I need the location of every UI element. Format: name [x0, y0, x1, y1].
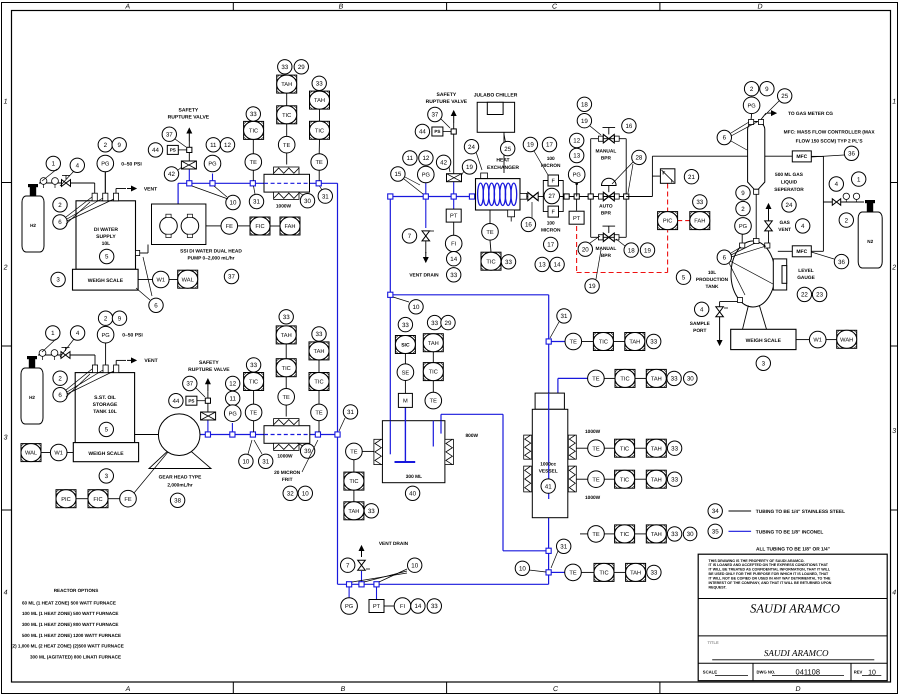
- svg-text:TE: TE: [430, 399, 437, 405]
- chain row y=533.9: TE: [580, 533, 588, 535]
- bubble 19 red loop pointer: [585, 279, 599, 293]
- svg-text:M: M: [403, 399, 408, 405]
- chain F2 mid: TE: [285, 405, 287, 416]
- wire blue DI supply main y=183: [178, 182, 264, 184]
- chain F1 right: TAH: [319, 109, 321, 121]
- svg-text:WAL: WAL: [182, 277, 194, 283]
- svg-text:1: 1: [892, 99, 896, 106]
- svg-text:6: 6: [58, 392, 62, 399]
- svg-text:TE: TE: [592, 477, 599, 483]
- svg-text:10: 10: [413, 304, 420, 311]
- bubble 19 BPR top: [577, 114, 591, 128]
- svg-text:20 MICRON: 20 MICRON: [274, 470, 301, 476]
- svg-text:VENT: VENT: [144, 358, 157, 364]
- rupture disc 1: [181, 161, 196, 169]
- svg-text:TE: TE: [569, 571, 576, 577]
- svg-text:TAH: TAH: [629, 340, 640, 346]
- svg-text:6: 6: [154, 303, 158, 310]
- regulator gauges 2: [39, 350, 46, 357]
- instrument FI bottom: [384, 605, 394, 607]
- chain F2 mid: TIC: [285, 377, 287, 388]
- svg-text:(2) 1,000 ML (2 HEAT ZONE) (2): (2) 1,000 ML (2 HEAT ZONE) (2)500 WATT F…: [11, 644, 124, 649]
- cylinder valve: [30, 187, 36, 196]
- HX bottom stub: [508, 210, 515, 217]
- svg-text:AUTO: AUTO: [599, 204, 613, 210]
- svg-text:1: 1: [4, 99, 8, 106]
- svg-text:FRIT: FRIT: [282, 477, 293, 483]
- svg-text:BPR: BPR: [601, 211, 612, 217]
- svg-text:MFC: MFC: [796, 249, 807, 255]
- wire BPR outlet riser: [626, 196, 652, 198]
- chain row y=341.5: TAH: [613, 341, 624, 343]
- furnace F2 top coil: [274, 419, 299, 426]
- svg-text:10: 10: [230, 200, 237, 207]
- svg-text:041108: 041108: [796, 667, 820, 676]
- weigh scale DI: [73, 269, 139, 290]
- svg-text:33: 33: [505, 259, 512, 266]
- chain row y=378.4: TE: [588, 370, 605, 387]
- gear pump: [158, 414, 200, 456]
- svg-text:HEAT: HEAT: [496, 158, 509, 164]
- bubble 7 bottom: [341, 558, 355, 572]
- svg-text:TIC: TIC: [249, 129, 258, 135]
- wire MFC1 to riser: [811, 155, 823, 157]
- wire blue stem rupture x=453.7 mid: [453, 181, 455, 196]
- chain F2 right: bubble 33: [312, 327, 326, 341]
- svg-text:N2: N2: [867, 239, 873, 244]
- bubble 12 13 before BPR: [570, 133, 584, 147]
- wire blue stem PG x=426 mid: [425, 183, 427, 197]
- svg-text:2: 2: [891, 265, 896, 272]
- svg-text:TE: TE: [315, 411, 322, 417]
- svg-text:5: 5: [682, 274, 686, 281]
- 300mL heater coils: [374, 439, 383, 464]
- bubble 2: [53, 198, 67, 212]
- 1000cc vessel cap: [535, 393, 564, 409]
- svg-text:FE: FE: [124, 497, 131, 503]
- svg-text:31: 31: [347, 409, 354, 416]
- legend line inconel: [729, 530, 752, 532]
- svg-text:10L: 10L: [708, 270, 716, 276]
- svg-text:33: 33: [250, 362, 257, 369]
- stirrer impeller: [395, 461, 416, 463]
- svg-text:4: 4: [801, 223, 805, 230]
- svg-text:500 ML GAS: 500 ML GAS: [775, 172, 804, 178]
- bubble 12 mid: [419, 151, 433, 165]
- rupture disc 2: [201, 412, 216, 420]
- bubble 12: [220, 138, 234, 152]
- svg-text:4: 4: [76, 163, 80, 170]
- svg-text:35: 35: [712, 529, 719, 536]
- svg-text:TIC: TIC: [620, 446, 629, 452]
- svg-text:18: 18: [628, 247, 635, 254]
- wire tank to gear pump: [135, 434, 159, 436]
- oil tank top nozzles: [92, 365, 97, 373]
- wire blue stem PG x=349.1 bottom: [348, 584, 350, 598]
- svg-text:TAH: TAH: [651, 532, 662, 538]
- manual BPR bottom valve: [603, 233, 614, 242]
- svg-text:PG: PG: [229, 411, 237, 417]
- bubble 31 pointer row1: [557, 309, 571, 323]
- bubble 31 pointer: [249, 194, 263, 208]
- bubble 31 pointer vessel bottom: [557, 539, 571, 553]
- bubble 16 BPR: [622, 119, 636, 133]
- bubble 36 MFC1: [844, 146, 858, 160]
- filter F bottom: [548, 206, 559, 217]
- svg-text:0–50 PSI: 0–50 PSI: [121, 161, 142, 167]
- svg-text:TAH: TAH: [630, 571, 641, 577]
- svg-text:MANUAL: MANUAL: [596, 148, 617, 154]
- svg-text:TE: TE: [283, 395, 290, 401]
- bubble 42 mid: [436, 155, 450, 169]
- instrument TAH 300mL: [423, 334, 443, 352]
- chain F2 left: bubble 33: [246, 358, 260, 372]
- N2 cylinder right: [858, 212, 882, 268]
- bubble 44 mid: [415, 124, 429, 138]
- svg-text:12: 12: [422, 155, 429, 162]
- svg-text:REACTOR OPTIONS: REACTOR OPTIONS: [54, 588, 99, 593]
- pump head right: [181, 217, 199, 235]
- svg-text:9: 9: [765, 86, 769, 93]
- bubble 5 in tank: [100, 249, 114, 263]
- svg-text:SAUDI ARAMCO: SAUDI ARAMCO: [750, 602, 840, 616]
- bubble 6 oil fan: [53, 388, 67, 402]
- weigh scale right: [731, 329, 796, 349]
- svg-text:IT IS LOANED AND ACCEPTED ON T: IT IS LOANED AND ACCEPTED ON THE EXPRESS…: [709, 563, 829, 567]
- svg-text:FIC: FIC: [93, 497, 102, 503]
- bubble 24 HX top: [464, 140, 478, 154]
- svg-text:WAH: WAH: [840, 337, 853, 343]
- instrument PT mid: [446, 209, 461, 222]
- bubble 20 BPR: [578, 242, 592, 256]
- furnace F1 bottom coil: [274, 192, 299, 199]
- instrument MFC top: [792, 151, 811, 162]
- svg-text:7: 7: [408, 233, 412, 240]
- svg-text:300 ML (AGITATED) 800 LINATI F: 300 ML (AGITATED) 800 LINATI FURNACE: [30, 654, 121, 659]
- bubble 1: [46, 156, 60, 170]
- bubble 2 9 separator: [744, 82, 758, 96]
- svg-text:JULABO CHILLER: JULABO CHILLER: [474, 93, 518, 99]
- bubble 25 chiller: [501, 141, 515, 155]
- svg-text:TAH: TAH: [348, 509, 359, 515]
- svg-text:19: 19: [589, 283, 596, 290]
- bubble 10 pointers: [226, 195, 240, 209]
- svg-text:TIC: TIC: [620, 532, 629, 538]
- bubble 14 mid: [447, 252, 461, 266]
- instrument SE: [404, 354, 406, 364]
- wire N2 to riser: [823, 201, 864, 203]
- svg-text:33: 33: [671, 531, 678, 538]
- chain row y=533.9: bubbles 33 30: [667, 527, 681, 541]
- vent drain valve bottom: [358, 560, 366, 565]
- bubble 24 separator: [782, 198, 796, 212]
- bubble 2 over PG: [98, 138, 112, 152]
- svg-text:FI: FI: [451, 242, 456, 248]
- furnace F1 top coil: [274, 167, 299, 174]
- vent line: [115, 189, 117, 194]
- svg-text:14: 14: [554, 262, 561, 269]
- svg-text:B: B: [341, 686, 346, 693]
- svg-text:19: 19: [644, 247, 651, 254]
- DI water supply tank: [76, 201, 136, 269]
- title block bottom row: [698, 662, 887, 664]
- svg-text:19: 19: [466, 164, 473, 171]
- bubble 12 oil line: [226, 376, 240, 390]
- svg-text:17: 17: [547, 242, 554, 249]
- bubble 4 oil: [70, 326, 84, 340]
- wire red dashed F/I to PIC: [667, 184, 669, 212]
- wire tap to F/I: [652, 175, 660, 177]
- furnace F2 bottom coil: [274, 443, 299, 450]
- svg-text:PORT: PORT: [693, 328, 706, 334]
- wire separator to MFC1: [765, 155, 793, 157]
- svg-text:TIC: TIC: [282, 366, 291, 372]
- svg-text:FIC: FIC: [255, 224, 264, 230]
- svg-text:BPR: BPR: [601, 155, 612, 161]
- wire H2 to regulator: [39, 182, 95, 184]
- svg-text:PG: PG: [747, 103, 755, 109]
- svg-text:SIC: SIC: [401, 342, 410, 348]
- wire chiller to HX: [503, 132, 505, 173]
- svg-text:4: 4: [4, 590, 8, 597]
- svg-text:12: 12: [229, 381, 236, 388]
- cylinder valve right: [867, 203, 873, 212]
- instrument PG after rupture: [204, 155, 221, 172]
- legend bubble 35: [708, 524, 722, 538]
- svg-text:24: 24: [786, 202, 793, 209]
- svg-text:60 ML (1 HEAT ZONE) 500 WATT F: 60 ML (1 HEAT ZONE) 500 WATT FURNACE: [22, 600, 116, 605]
- valve after HX: [528, 192, 538, 200]
- svg-text:33: 33: [402, 322, 409, 329]
- wire blue tap to TE row y=341.5: [549, 341, 565, 343]
- svg-text:PG: PG: [739, 224, 747, 230]
- chain F1 left: TE: [252, 171, 254, 181]
- svg-text:1000W: 1000W: [276, 204, 292, 210]
- svg-text:31: 31: [561, 313, 568, 320]
- bubble 21: [684, 170, 698, 184]
- instrument W1 right: [796, 339, 810, 341]
- instrument PS square: [167, 145, 178, 154]
- bubble 5 tank: [676, 270, 690, 284]
- chain row y=448.2: TE: [576, 447, 587, 449]
- svg-text:W1: W1: [54, 451, 63, 457]
- instrument FAH: [270, 225, 280, 227]
- bubble 33 bottom: [427, 599, 441, 613]
- pump head left: [160, 217, 178, 235]
- svg-text:24: 24: [468, 144, 475, 151]
- svg-text:FLOW 150 SCCM) TYP 2 PL'S: FLOW 150 SCCM) TYP 2 PL'S: [796, 139, 864, 145]
- svg-text:TIC: TIC: [599, 571, 608, 577]
- bubble 37 mid: [428, 107, 442, 121]
- svg-text:44: 44: [419, 129, 426, 136]
- wire blue 1000cc cap to TE row y=378.4: [557, 378, 559, 393]
- chain row y=479.2: TIC: [604, 478, 614, 480]
- production tank vessel: [731, 241, 775, 307]
- bubble 31 oil pointer: [259, 454, 273, 468]
- wire blue DI water pump riser: [177, 183, 179, 204]
- svg-text:29: 29: [445, 320, 452, 327]
- left chain TIC 300mL: [353, 460, 355, 472]
- left chain bubble 33: [364, 504, 378, 518]
- bubble 22 23: [797, 287, 811, 301]
- svg-text:800W: 800W: [466, 433, 479, 439]
- svg-text:TE: TE: [592, 532, 599, 538]
- arrow vent up 2: [207, 379, 209, 391]
- filter F top: [548, 175, 559, 186]
- wire blue stem PT x=453.7: [453, 197, 455, 210]
- dual head pump box: [152, 204, 206, 245]
- svg-text:33: 33: [650, 339, 657, 346]
- bubble 6 separator fan: [717, 130, 731, 144]
- regulator valve right: [832, 199, 836, 205]
- svg-text:RUPTURE VALVE: RUPTURE VALVE: [426, 99, 468, 105]
- instrument FIC: [238, 225, 250, 227]
- svg-text:LEVEL: LEVEL: [798, 268, 814, 274]
- chain F1 mid: TAH: [286, 93, 288, 106]
- svg-text:0–50 PSI: 0–50 PSI: [122, 333, 143, 339]
- svg-text:PG: PG: [208, 162, 216, 168]
- svg-text:25: 25: [781, 93, 788, 100]
- chain F1 right: TE: [318, 171, 320, 181]
- bubble 1 N2: [852, 172, 866, 186]
- wire MFC2 to tank: [778, 250, 793, 252]
- svg-text:TE: TE: [316, 160, 323, 166]
- chain row y=572.4: TE: [565, 564, 582, 581]
- node square safety 2: [205, 398, 210, 403]
- bubble 3 oil: [99, 469, 113, 483]
- svg-text:33: 33: [671, 445, 678, 452]
- svg-text:33: 33: [250, 111, 257, 118]
- bubble 25 separator: [778, 89, 792, 103]
- wire to separator: [652, 155, 747, 157]
- wire blue stem PG x=212.5: [212, 174, 214, 184]
- svg-text:6: 6: [58, 219, 62, 226]
- svg-text:9: 9: [741, 190, 745, 197]
- svg-text:33: 33: [283, 314, 290, 321]
- instrument PG bottom: [341, 598, 358, 615]
- svg-text:H2: H2: [29, 395, 35, 400]
- instrument PS square oil: [186, 396, 197, 405]
- wire blue stem PT x=376.5 bottom: [376, 584, 378, 599]
- wire blue vertical x=390.3 to 300mL vessel: [389, 197, 391, 421]
- chain F2 right: TE: [318, 421, 320, 432]
- manual BPR top valve: [603, 134, 614, 143]
- HX outlet stub: [520, 193, 527, 199]
- node square safety 3: [451, 129, 456, 134]
- svg-text:18: 18: [581, 102, 588, 109]
- heat exchanger blue coil: [478, 183, 484, 205]
- svg-text:BPR: BPR: [601, 253, 612, 259]
- bubble 44 oil: [169, 394, 183, 408]
- instrument PG tank: [735, 218, 752, 235]
- svg-text:40: 40: [409, 491, 416, 498]
- furnace F2 heater body: [264, 426, 310, 444]
- svg-text:MANUAL: MANUAL: [596, 246, 617, 252]
- wire blue 300mL outlet tube: [440, 421, 442, 434]
- svg-text:WEIGH SCALE: WEIGH SCALE: [88, 451, 124, 457]
- svg-text:PG: PG: [101, 333, 109, 339]
- bubble 9 2 PG chain: [736, 186, 750, 200]
- wire blue tap to TE row y=572.4: [549, 571, 565, 573]
- wire FE to gear pump: [134, 452, 168, 493]
- weigh scale oil: [73, 443, 138, 462]
- svg-text:41: 41: [545, 483, 552, 490]
- svg-text:GAUGE: GAUGE: [797, 275, 815, 281]
- bubble 41: [541, 479, 555, 493]
- node junction oil line: [205, 432, 210, 437]
- svg-text:33: 33: [316, 331, 323, 338]
- svg-text:TIC: TIC: [599, 340, 608, 346]
- chain row y=341.5: TE: [564, 341, 566, 343]
- svg-text:WAL: WAL: [25, 451, 37, 457]
- bubble 2 over PG oil: [98, 311, 112, 325]
- svg-text:29: 29: [298, 64, 305, 71]
- wire HX outlet: [527, 196, 528, 198]
- HX top stub: [481, 173, 488, 179]
- svg-text:TAH: TAH: [428, 341, 439, 347]
- svg-text:2: 2: [104, 315, 108, 322]
- svg-text:GEAR HEAD TYPE: GEAR HEAD TYPE: [159, 474, 202, 480]
- svg-text:1000W: 1000W: [585, 495, 601, 501]
- svg-text:27: 27: [548, 193, 555, 200]
- svg-text:12: 12: [573, 138, 580, 145]
- svg-text:11: 11: [407, 155, 414, 162]
- svg-text:TITLE: TITLE: [708, 640, 719, 645]
- wire blue stem PG x=232.4 oil: [231, 423, 233, 435]
- svg-text:PIC: PIC: [61, 497, 70, 503]
- title block disclaimer box: [698, 598, 887, 600]
- 1000cc heater coils: [524, 435, 532, 459]
- wire blue 300mL outlet loop: [440, 414, 442, 420]
- svg-text:5: 5: [105, 254, 109, 261]
- bubble 6 with fan to tank nozzles: [53, 215, 67, 229]
- svg-text:10L: 10L: [102, 241, 111, 247]
- instrument PG 0-50 PSI oil: [97, 326, 114, 343]
- wire safety 3 down: [453, 134, 455, 174]
- level gauge: [773, 259, 786, 290]
- bubble 27 on line: [543, 196, 563, 198]
- node junction DI line: [187, 181, 192, 186]
- svg-text:SE: SE: [402, 370, 410, 376]
- chain row y=479.2: bubble 33: [667, 472, 681, 486]
- svg-text:37: 37: [228, 274, 235, 281]
- bubble 1 oil: [46, 326, 60, 340]
- tank top nozzles: [740, 243, 745, 248]
- svg-text:TAH: TAH: [314, 349, 325, 355]
- svg-text:11: 11: [229, 396, 236, 403]
- chain row y=378.4: TIC: [604, 377, 615, 379]
- heat exchanger shell: [476, 179, 521, 210]
- bubble 9: [112, 138, 126, 152]
- svg-text:33: 33: [368, 508, 375, 515]
- wire blue vertical drop x=337.5: [337, 183, 339, 584]
- instrument WAH right: [826, 339, 837, 341]
- svg-text:W1: W1: [813, 338, 822, 344]
- JULABO chiller box: [477, 102, 514, 132]
- left chain TE 300mL: [362, 450, 374, 452]
- wire blue HX feed main y=196.5: [390, 196, 475, 198]
- svg-text:100: 100: [547, 221, 555, 227]
- arrow vent up 3: [453, 111, 455, 123]
- svg-text:TE: TE: [250, 160, 257, 166]
- svg-text:IT WILL NOT BE COPIED OR USED: IT WILL NOT BE COPIED OR USED IN ANY WAY…: [709, 577, 832, 581]
- svg-text:6: 6: [723, 135, 727, 142]
- svg-text:REQUEST.: REQUEST.: [709, 586, 727, 590]
- instrument FE oil: [108, 498, 120, 500]
- instrument TE 300mL: [432, 381, 434, 393]
- wire riser to MFC2: [811, 250, 823, 252]
- svg-text:10: 10: [411, 562, 418, 569]
